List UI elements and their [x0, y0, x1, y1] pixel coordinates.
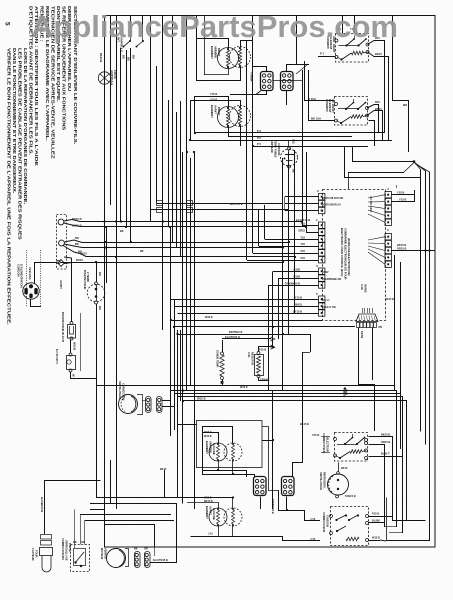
wire grid D out bottom [286, 497, 288, 510]
wire feeds into connector A [246, 40, 248, 72]
svg-text:BK: BK [140, 250, 144, 253]
svg-text:CUISSON: CUISSON [277, 143, 281, 155]
wire horiz group y327-342 [174, 326, 355, 328]
svg-text:OR15 B: OR15 B [381, 440, 390, 444]
wire diag into connector B [296, 64, 308, 74]
wire run y390 [171, 391, 397, 444]
wire box1 top stubs [342, 16, 344, 34]
svg-text:TAN15 B: TAN15 B [345, 494, 356, 498]
svg-text:KEYB: KEYB [360, 331, 364, 338]
svg-text:FOUR: FOUR [35, 550, 39, 557]
svg-text:RESISTOR: RESISTOR [251, 352, 255, 365]
svg-text:P 1: P 1 [320, 52, 325, 56]
svg-text:ARRIERE: ARRIERE [214, 46, 218, 58]
oven lamp [98, 70, 117, 85]
svg-text:BK15 B: BK15 B [300, 423, 309, 426]
svg-text:REFROIDISS.: REFROIDISS. [323, 472, 327, 489]
svg-text:DISJONCTEUR-ID-10 M: DISJONCTEUR-ID-10 M [61, 312, 65, 343]
inline connector pair 1 [157, 201, 163, 206]
wire bus 1b [110, 16, 112, 205]
svg-text:3.3K: 3.3K [360, 284, 364, 291]
svg-text:P 5: P 5 [257, 129, 262, 133]
conv fan bracket [137, 395, 143, 415]
oven switch box upper [322, 433, 368, 462]
circuit breaker dashed circle [83, 270, 105, 311]
svg-text:W: W [72, 374, 76, 377]
wire sw RF right leads [367, 105, 379, 134]
svg-text:DOOR SW RELAY: DOOR SW RELAY [322, 204, 341, 207]
svg-text:BR/TN15 B: BR/TN15 B [229, 330, 243, 334]
connector block C [254, 477, 267, 496]
wire W15B link [70, 340, 72, 353]
terminal L2 [58, 260, 64, 267]
infinite switch right rear box [326, 34, 369, 63]
svg-text:DOOR UNLOCK SW: DOOR UNLOCK SW [322, 198, 344, 200]
svg-text:ELC/BK15 B: ELC/BK15 B [40, 497, 44, 512]
svg-text:D'ALIMENTATION: D'ALIMENTATION [20, 264, 24, 288]
wire element RR right lead [241, 41, 254, 48]
svg-text:VIO TWC ASSY: VIO TWC ASSY [369, 196, 372, 213]
svg-text:OHMS: OHMS [364, 284, 368, 293]
svg-text:R15: R15 [375, 100, 380, 104]
svg-text:LES PROBLEMES DE CABLAGE PEUVE: LES PROBLEMES DE CABLAGE PEUVENT ENTRAIN… [18, 48, 23, 240]
wire grid C out [260, 497, 262, 510]
wire breaker bottom route [96, 330, 98, 497]
svg-text:BL/BK: BL/BK [372, 519, 380, 523]
svg-text:BK15 B: BK15 B [397, 243, 406, 247]
svg-text:3.3K: 3.3K [247, 352, 251, 358]
ERC connector P2 strip [317, 189, 325, 214]
wire run y401 [183, 401, 407, 522]
wire oven sw lower right leads [369, 517, 393, 522]
wire drop x106 [106, 227, 108, 283]
svg-text:BK15 B: BK15 B [381, 433, 390, 437]
wire P15B run [259, 346, 272, 348]
svg-text:ELC/Y15 B: ELC/Y15 B [230, 203, 243, 206]
svg-text:W15 B: W15 B [240, 386, 248, 389]
oven temperature sensor resistor [216, 350, 225, 380]
svg-text:Y15/BK15 B: Y15/BK15 B [271, 499, 275, 514]
wire bus 7 [176, 112, 178, 248]
wire element RR inner lead [204, 16, 206, 75]
note text block French [7, 6, 79, 325]
wire vert x110 low [110, 460, 112, 504]
wire conv fan leads [162, 400, 171, 402]
wire breaker leads [96, 262, 98, 282]
element right rear dual [210, 46, 251, 69]
svg-text:ELC/TN15 B: ELC/TN15 B [153, 558, 168, 562]
wire vert x394 [394, 255, 396, 391]
oven switch box lower [322, 507, 369, 546]
ERC main strip P1 [316, 218, 325, 263]
wire lower sw connections [393, 520, 407, 522]
wire right edge drop [393, 16, 409, 152]
svg-text:W15 B: W15 B [197, 397, 206, 401]
wire inner right vertical 3 [429, 172, 431, 541]
wire sw RF coil lead [369, 121, 375, 147]
wire RF left verticals [194, 96, 196, 133]
wire LR right loop [262, 427, 279, 496]
svg-text:V15 B: V15 B [312, 433, 319, 437]
door light switch [117, 36, 132, 52]
wire big loop 1 [96, 497, 164, 499]
terminal N [59, 240, 65, 246]
svg-text:VERROU: VERROU [104, 548, 108, 559]
wire element RF top leads [195, 97, 229, 108]
ERC P4 pin wires [171, 299, 319, 301]
wire P2 feeds [284, 197, 286, 211]
wire route right of fuse [80, 313, 82, 371]
wire drops from y327 group [272, 327, 274, 347]
svg-text:TEMP. TABLE: TEMP. TABLE [274, 140, 278, 158]
svg-text:TAN/BK15 B: TAN/BK15 B [285, 281, 300, 285]
wire P3 feed verticals [272, 272, 274, 348]
svg-text:CONVECTION: CONVECTION [122, 383, 126, 400]
convection fan motor [118, 381, 138, 414]
wire border stub x296 [296, 16, 298, 64]
wire TAN/BK drop [252, 41, 254, 146]
svg-text:VENTILATEUR: VENTILATEUR [118, 381, 122, 399]
svg-text:MOTEUR: MOTEUR [100, 548, 104, 559]
svg-text:R 15A: R 15A [308, 97, 316, 101]
wire N fan [64, 240, 289, 243]
wire connector A out bottom [230, 91, 267, 95]
wire bus 3 [156, 66, 158, 203]
svg-text:Y15: Y15 [300, 235, 305, 239]
svg-text:W15 B: W15 B [204, 435, 212, 438]
wire sensor A leads [222, 340, 224, 352]
wire loop verticals [182, 401, 184, 504]
door switch [136, 36, 145, 48]
svg-text:BK: BK [75, 236, 79, 240]
lock motor bracket [125, 549, 129, 567]
svg-text:W15 B: W15 B [73, 342, 77, 350]
svg-text:OR: OR [144, 548, 148, 551]
wire bottom routing [278, 510, 305, 512]
svg-text:3: 3 [387, 228, 389, 232]
wire bus 1 [116, 16, 118, 509]
wire plug guide rails [26, 250, 28, 307]
wire element LF tops [187, 503, 219, 509]
wire keypad ribbon [359, 328, 375, 432]
svg-text:ELEMENT: ELEMENT [205, 441, 209, 454]
svg-text:W15 B: W15 B [372, 536, 380, 540]
wire oven sw upper left leads [321, 436, 330, 438]
wire bus 11 mid [182, 152, 184, 503]
lock connector strips [134, 548, 150, 568]
svg-text:BK: BK [73, 540, 77, 544]
svg-text:BK15 B: BK15 B [72, 223, 82, 227]
svg-text:VER-USA: VER-USA [28, 267, 32, 280]
wire right column bottom joins [396, 443, 398, 527]
svg-text:4: 4 [387, 187, 389, 191]
svg-text:BK15: BK15 [295, 302, 302, 306]
svg-text:P 5: P 5 [257, 142, 262, 146]
svg-text:AVANT: AVANT [59, 280, 63, 289]
wire bundle corners down [162, 222, 164, 331]
inline connector pair 2 [187, 201, 193, 206]
svg-text:5: 5 [316, 292, 318, 296]
wire big loop 3 [90, 510, 155, 548]
wire grid A to bus [273, 80, 302, 82]
svg-text:P15 B: P15 B [259, 348, 266, 352]
svg-text:BK 15A: BK 15A [311, 117, 321, 121]
wire sensor leads [259, 347, 274, 352]
svg-text:FU 30 125 V: FU 30 125 V [55, 349, 59, 364]
wire bus 8 [180, 101, 182, 257]
wire verticals right of oven sw [392, 437, 394, 521]
svg-text:BK15 B: BK15 B [72, 217, 82, 221]
svg-text:BK: BK [134, 548, 138, 551]
ERC right strip P6 [385, 187, 391, 226]
junction fan right [413, 160, 416, 163]
wire fuse down and right [71, 372, 94, 379]
svg-text:ELC LT: ELC LT [322, 300, 330, 302]
svg-text:SELECTEUR: SELECTEUR [326, 436, 330, 452]
wire fan area riser [386, 498, 388, 542]
svg-text:OVEN/PROBE SW: OVEN/PROBE SW [322, 279, 342, 281]
svg-text:DROIT: DROIT [217, 48, 221, 57]
wire sw leads down [120, 48, 122, 222]
power cord plug [17, 264, 40, 299]
svg-text:Y15 B: Y15 B [210, 92, 217, 96]
svg-text:(HORLOGE ELECTRONIQUE): (HORLOGE ELECTRONIQUE) [347, 238, 351, 276]
svg-text:ARRIERE: ARRIERE [209, 441, 213, 453]
element left rear dual [204, 431, 242, 461]
terminal L1 [58, 219, 64, 225]
svg-text:CONV: CONV [322, 272, 329, 274]
wire L1 fan [64, 220, 302, 222]
svg-text:P 5: P 5 [257, 136, 262, 140]
svg-text:J 15: J 15 [310, 517, 316, 521]
svg-text:Y15: Y15 [300, 222, 305, 226]
svg-text:AV. DROIT: AV. DROIT [331, 99, 335, 113]
svg-text:COMMUTATEUR: COMMUTATEUR [322, 512, 326, 532]
svg-text:VERROUILLAGE: VERROUILLAGE [65, 540, 69, 561]
svg-text:P8: P8 [379, 325, 383, 329]
svg-text:LIMITEUR: LIMITEUR [270, 140, 274, 153]
wire long run y140 [190, 140, 392, 142]
door lock switch dashed box [61, 538, 90, 572]
sensor inline connector [41, 535, 52, 540]
svg-text:V15: V15 [300, 256, 305, 260]
terminal block dashed [57, 215, 67, 270]
cooling fan motor [319, 472, 349, 498]
svg-text:PORTE: PORTE [68, 543, 71, 552]
svg-text:CUISSON: CUISSON [326, 515, 330, 527]
wire bus 2 [150, 16, 152, 210]
connector block D [282, 477, 295, 496]
wire bottom right long runs [386, 540, 430, 542]
svg-text:ELEMENT: ELEMENT [205, 506, 209, 519]
ERC P7 out long wire [392, 250, 436, 252]
wire limiter top lead [289, 146, 345, 148]
wire bus 10 mid [170, 320, 172, 436]
wire sw RR left leads [318, 56, 336, 58]
svg-text:COMMANDE ELECTRONIQUE DU FOUR: COMMANDE ELECTRONIQUE DU FOUR [344, 228, 348, 280]
element left front dual [204, 497, 242, 527]
svg-text:ELECTRONIC OVEN CONTROL (EOC): ELECTRONIC OVEN CONTROL (EOC) [340, 228, 344, 277]
svg-text:BK15: BK15 [76, 258, 83, 262]
svg-text:VENTILATEUR: VENTILATEUR [319, 472, 323, 490]
wire run y393 [174, 394, 401, 450]
svg-text:BK15 B: BK15 B [99, 53, 103, 62]
svg-text:BK15: BK15 [160, 468, 167, 471]
wire sensor drop [45, 481, 101, 535]
ERC strip P3 [316, 264, 325, 288]
svg-text:BK15 B: BK15 B [385, 298, 394, 301]
wire bus 9 [186, 16, 188, 205]
ERC P6 fan wires [368, 195, 385, 198]
wire x273 drop [262, 440, 273, 442]
ERC label text [340, 228, 368, 293]
svg-text:ELC/TN15 B: ELC/TN15 B [225, 335, 240, 339]
wire inner right vertical 2 [425, 171, 427, 445]
svg-text:DROIT: DROIT [217, 107, 221, 116]
conv fan connector strips [146, 397, 163, 413]
svg-text:1: 1 [316, 218, 318, 222]
svg-text:AVANT: AVANT [214, 105, 218, 114]
svg-text:BL15 T: BL15 T [381, 452, 390, 456]
svg-text:SONDE TEMP.: SONDE TEMP. [216, 350, 220, 368]
svg-text:2: 2 [317, 189, 319, 193]
wire connector B out bottom [286, 91, 288, 106]
wire lamp feed [104, 84, 106, 221]
wire element LF bottoms [218, 526, 220, 536]
wire run y161 [353, 146, 415, 162]
svg-text:3: 3 [316, 264, 318, 268]
svg-text:DANS LE FONCTIONNEMENT ET ETRE: DANS LE FONCTIONNEMENT ET ETRE DANGEREUX… [12, 48, 17, 194]
svg-text:Y15 B: Y15 B [210, 98, 217, 102]
wire bottom bundle corners [164, 470, 166, 498]
disconnect arrows [344, 389, 348, 393]
resistor 3.3K [247, 348, 270, 382]
svg-text:LORS DE LA REPARATION D'ORGANE: LORS DE LA REPARATION D'ORGANES DE COMMA… [23, 48, 28, 204]
svg-text:BK15: BK15 [375, 52, 382, 56]
ERC P7 fan wires [368, 237, 385, 240]
wire terminal to breaker [71, 258, 73, 322]
watermark AppliancePartsPros.com [31, 9, 453, 45]
svg-text:TAN/BK: TAN/BK [250, 72, 254, 82]
connector block A [261, 72, 274, 91]
element loop outer box [197, 421, 263, 468]
wire feeds into connector B [287, 65, 297, 72]
svg-text:BK: BK [75, 242, 79, 246]
svg-text:J 15: J 15 [310, 537, 316, 541]
wire element LR bottoms [218, 461, 220, 470]
wire vert x400 [400, 262, 402, 394]
svg-text:V15: V15 [300, 249, 305, 253]
svg-text:Y15 B: Y15 B [397, 191, 404, 195]
oven sensor probe [31, 548, 53, 573]
wire limiter bottom lead [288, 168, 290, 190]
svg-text:Y15 B: Y15 B [399, 198, 406, 202]
element right front dual [210, 105, 251, 128]
wire inner right vertical 1 [420, 170, 422, 432]
fuse [55, 349, 76, 372]
wire run y385 [96, 385, 394, 387]
svg-text:J 15: J 15 [208, 533, 213, 536]
svg-text:5: 5 [4, 22, 11, 26]
ERC P1 pin wires [302, 225, 319, 227]
wire L2 fan [64, 263, 283, 264]
wire bus 4 [162, 16, 164, 222]
svg-text:BK15: BK15 [375, 107, 382, 111]
ERC P6 out wires [392, 194, 415, 196]
wire switch stubs to top rail [130, 16, 132, 36]
wire long run y146 [253, 146, 368, 148]
wire element RR loop [196, 39, 229, 49]
svg-text:CAPTEUR: CAPTEUR [31, 548, 35, 561]
svg-text:AVANT: AVANT [209, 506, 213, 515]
svg-text:COMMUTATEURS: COMMUTATEURS [61, 538, 65, 560]
svg-text:2 TEMP.: 2 TEMP. [86, 272, 90, 282]
wire lock switch feeds [74, 510, 76, 549]
svg-text:P15 B: P15 B [372, 512, 379, 516]
wire bus 5 [168, 100, 170, 227]
wire ELC/TN15B run [222, 338, 271, 340]
wire element LR loop [203, 433, 255, 478]
wire nested corners upper mid [150, 205, 152, 222]
door lock motor [100, 548, 126, 568]
wire frame border of schematic [105, 16, 436, 548]
svg-text:ELEMENT: ELEMENT [210, 105, 214, 118]
ERC strip P4 [316, 292, 325, 316]
svg-text:BK15: BK15 [341, 467, 348, 470]
wire long run y133 [195, 132, 385, 134]
svg-text:OR15: OR15 [298, 228, 305, 232]
wire plug bottom lead [31, 300, 42, 307]
wire run y172 [348, 172, 404, 174]
wire sw RF left leads [309, 70, 335, 121]
membrane keypad connector [356, 308, 382, 329]
svg-text:BK: BK [120, 230, 124, 233]
ERC P3 pin wires [273, 271, 319, 273]
junction dots network [162, 220, 164, 222]
wire limiter corner down [345, 147, 421, 178]
wire pair y203-210 to ERC [157, 203, 284, 205]
svg-text:ELEMENT: ELEMENT [210, 46, 214, 59]
connector block B [281, 72, 294, 91]
svg-text:Y15: Y15 [300, 242, 305, 246]
wire run y536 [191, 537, 283, 542]
wire x303 drop to grid D [302, 352, 304, 462]
wire cooling fan top lead [338, 463, 340, 472]
wire oven sw upper right leads [369, 436, 394, 438]
wire element RF bottom leads [229, 127, 353, 137]
svg-text:OVEN LT SW: OVEN LT SW [322, 307, 337, 309]
ERC P2 pin wires [285, 196, 319, 198]
svg-text:GAUCHE: GAUCHE [212, 443, 216, 455]
svg-text:COMMUTATEUR: COMMUTATEUR [322, 433, 326, 453]
thermal breaker [61, 312, 76, 343]
junction dots power [103, 220, 105, 222]
wire horizontal y320 from left [171, 320, 322, 322]
svg-text:Y15: Y15 [292, 139, 296, 144]
svg-text:W15 B: W15 B [205, 316, 213, 319]
wire big loop 2 [90, 504, 177, 564]
svg-text:BK15: BK15 [80, 252, 87, 256]
wire run y397 [178, 397, 403, 456]
wire lock motor out [150, 562, 177, 564]
svg-text:Y15 B: Y15 B [295, 296, 302, 300]
svg-text:ELC/Y15 B: ELC/Y15 B [296, 218, 310, 222]
wire sw RR right leads [368, 41, 385, 134]
wire plug top lead [35, 263, 58, 284]
svg-text:GAUCHE: GAUCHE [212, 508, 216, 520]
wire P1 feed verticals [302, 150, 304, 226]
infinite switch right front box [325, 97, 369, 126]
